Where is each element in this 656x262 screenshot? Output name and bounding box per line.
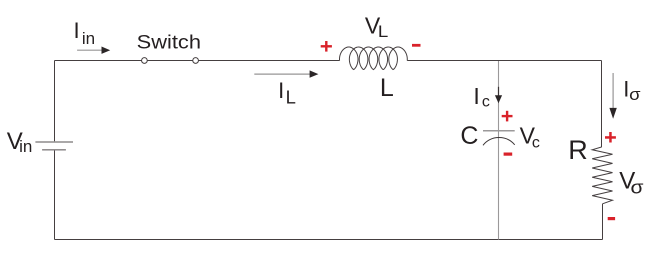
svg-text:L: L	[380, 74, 394, 102]
svg-text:L: L	[286, 86, 296, 107]
arrow I_in (shaft)	[77, 49, 102, 51]
switch terminal circle left	[142, 58, 148, 64]
svg-text:in: in	[82, 29, 95, 48]
polarity + at resistor (red)	[605, 132, 616, 143]
arrow I_c (head)	[495, 95, 502, 103]
wire: top right segment after inductor	[407, 60, 601, 62]
resistor R zigzag	[592, 147, 612, 204]
polarity + at inductor left (red)	[321, 41, 332, 52]
capacitor C top plate (gray)	[483, 130, 515, 132]
polarity - at resistor (red)	[608, 217, 615, 220]
wire: left side upper (to battery)	[54, 61, 56, 142]
svg-text:I: I	[74, 18, 80, 43]
battery V_in bottom plate	[42, 149, 66, 151]
inductor L coil	[340, 47, 408, 70]
svg-text:I: I	[278, 78, 284, 103]
arrow I_in (head)	[102, 47, 111, 54]
battery V_in top plate	[35, 141, 73, 143]
arrow I_L (shaft)	[254, 73, 310, 75]
wire: top left segment	[55, 60, 340, 62]
arrow I_L (head)	[310, 70, 319, 77]
wire: capacitor branch upper (gray)	[498, 61, 500, 130]
svg-text:σ: σ	[631, 177, 644, 197]
svg-text:σ: σ	[629, 85, 641, 104]
wire: capacitor branch lower (gray)	[498, 131, 500, 240]
arrow I_sigma (shaft)	[612, 73, 614, 108]
svg-text:R: R	[568, 135, 588, 165]
svg-text:in: in	[19, 137, 32, 156]
wire: bottom	[55, 239, 603, 241]
svg-text:c: c	[532, 134, 540, 151]
arrow I_c (shaft, dark over gray wire)	[498, 87, 500, 96]
svg-text:c: c	[482, 93, 490, 110]
polarity - at inductor right (red)	[412, 44, 421, 47]
svg-text:I: I	[473, 83, 479, 109]
svg-text:Switch: Switch	[137, 33, 201, 54]
arrow I_sigma (head)	[609, 108, 616, 119]
svg-text:L: L	[378, 22, 388, 41]
wire: right side lower (resistor to bottom)	[602, 204, 604, 240]
polarity + at capacitor (red)	[502, 111, 513, 122]
polarity - at capacitor (red)	[504, 153, 513, 156]
svg-text:C: C	[460, 122, 478, 150]
capacitor C curved bottom plate	[483, 138, 515, 146]
wire: left side lower (battery to bottom)	[54, 150, 56, 239]
switch terminal circle right	[193, 58, 199, 64]
wire: right side upper (to resistor)	[601, 61, 603, 148]
